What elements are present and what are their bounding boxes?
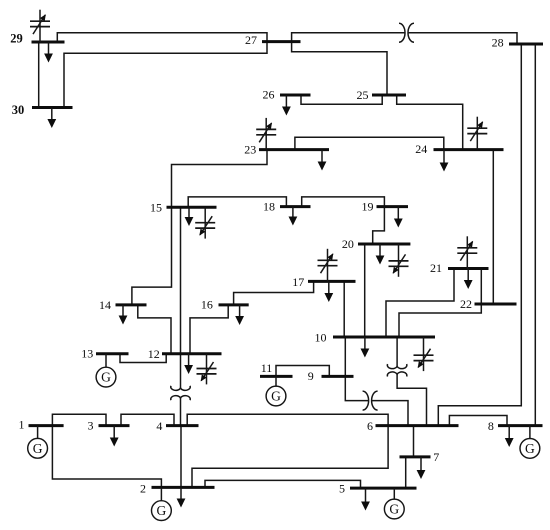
svg-text:10: 10 [315, 331, 327, 345]
wire 14-15 [132, 207, 172, 305]
generator G at bus 11 [266, 376, 286, 406]
wire 4-6 [187, 414, 388, 425]
svg-text:3: 3 [88, 418, 94, 432]
wire 8-28 [534, 44, 536, 426]
bus 27 [262, 40, 301, 43]
svg-text:17: 17 [292, 275, 304, 289]
load at bus 7 [417, 457, 426, 479]
svg-text:G: G [157, 503, 167, 518]
svg-text:G: G [101, 370, 111, 385]
svg-text:8: 8 [488, 419, 494, 433]
bus 8 [498, 424, 543, 427]
bus 18 [280, 205, 311, 208]
svg-text:25: 25 [357, 88, 369, 102]
wire 12-13 [120, 354, 166, 363]
svg-text:26: 26 [263, 88, 275, 102]
svg-text:21: 21 [430, 261, 442, 275]
wire 6-10 above transformer [396, 337, 398, 366]
generator G at bus 8 [520, 426, 540, 459]
load at bus 17 [324, 281, 333, 302]
wire 18-19 [302, 197, 385, 207]
svg-text:4: 4 [156, 419, 162, 433]
load at bus 30 [47, 108, 56, 129]
svg-text:11: 11 [261, 361, 273, 375]
load at bus 18 [289, 207, 298, 226]
svg-text:16: 16 [201, 298, 213, 312]
wire 4-12 above transformer [180, 354, 182, 388]
load at bus 16 [235, 305, 244, 325]
svg-text:12: 12 [148, 347, 160, 361]
shunt capacitor at bus 20 [389, 244, 409, 277]
wire 29-27 [57, 33, 267, 42]
load at bus 5 [361, 488, 370, 510]
svg-text:27: 27 [245, 33, 257, 47]
load at bus 12 [184, 354, 193, 374]
load at bus 2 [177, 487, 186, 507]
wire 6-8 [449, 416, 507, 426]
wire 9-10 [344, 337, 346, 376]
wire 12-15 [180, 207, 182, 354]
shunt capacitor at bus 21 [457, 236, 477, 268]
wire 16-17 [234, 282, 314, 305]
transformer 27-28 [399, 23, 414, 42]
wire 23-24 [295, 137, 444, 149]
bus 14 [116, 303, 147, 306]
load at bus 29 [44, 42, 53, 63]
svg-text:5: 5 [339, 481, 345, 495]
bus 20 [358, 243, 410, 246]
wire 6-9 right of transformer [372, 401, 408, 426]
wire 15-18 [188, 197, 286, 207]
wire 3-4 [121, 414, 174, 425]
wire 6-28 [438, 44, 521, 426]
wire 2-6 [192, 426, 388, 488]
load at bus 19 [394, 207, 403, 228]
svg-text:6: 6 [367, 419, 373, 433]
shunt capacitor at bus 29 [30, 10, 50, 42]
wire 1-2 [52, 426, 161, 488]
bus 23 [259, 148, 329, 151]
wire 2-4 [180, 426, 182, 488]
wire 27-28 right of transformer [408, 33, 517, 44]
wire 10-21 [386, 269, 454, 338]
shunt capacitor at bus 10 [414, 337, 434, 371]
bus 16 [219, 303, 249, 306]
wire 29-30 [38, 42, 40, 108]
shunt capacitor at bus 24 [467, 117, 487, 150]
svg-text:G: G [389, 502, 399, 517]
bus 15 [167, 206, 217, 209]
bus 26 [280, 94, 311, 97]
svg-text:9: 9 [308, 369, 314, 383]
wire 12-16 [190, 305, 228, 354]
svg-text:7: 7 [433, 450, 439, 464]
svg-text:18: 18 [263, 199, 275, 213]
transformer 6-10 [387, 364, 407, 376]
load at bus 20 [376, 244, 385, 265]
shunt capacitor at bus 23 [256, 118, 276, 150]
wire 10-22 [399, 304, 481, 337]
generator G at bus 5 [384, 488, 404, 519]
wire 22-24 [492, 150, 494, 304]
svg-text:G: G [33, 441, 43, 456]
bus 13 [96, 352, 129, 355]
bus 30 [32, 106, 73, 109]
bus 25 [372, 94, 406, 97]
shunt capacitor at bus 15 [195, 207, 215, 238]
bus 10 [333, 336, 435, 339]
wire 10-20 [364, 244, 366, 337]
svg-text:19: 19 [362, 200, 374, 214]
wire 5-7 [405, 457, 407, 488]
wire 25-27 [292, 42, 387, 96]
generator G at bus 13 [96, 354, 116, 387]
bus 21 [448, 267, 489, 270]
svg-text:30: 30 [12, 103, 25, 117]
svg-text:22: 22 [460, 297, 472, 311]
generator G at bus 1 [28, 426, 48, 459]
svg-text:13: 13 [81, 347, 93, 361]
bus 5 [350, 487, 417, 490]
wire 6-9 left of transformer [345, 376, 368, 400]
wire 27-28 left of transformer [292, 33, 405, 42]
svg-text:15: 15 [150, 200, 162, 214]
bus 2 [152, 486, 215, 489]
svg-text:28: 28 [492, 35, 504, 49]
bus 17 [308, 280, 356, 283]
generator G at bus 2 [152, 487, 172, 520]
svg-text:1: 1 [19, 418, 25, 432]
load at bus 10 [361, 337, 370, 358]
bus 24 [434, 148, 504, 151]
wire 21-22 [480, 269, 482, 305]
svg-text:29: 29 [10, 31, 23, 45]
wire 6-10 below transformer [397, 374, 426, 425]
wire 10-17 [343, 282, 345, 338]
load at bus 24 [440, 150, 449, 172]
bus 28 [509, 43, 543, 46]
wire 1-3 [52, 414, 106, 425]
svg-text:24: 24 [415, 142, 427, 156]
load at bus 26 [282, 95, 291, 115]
load at bus 3 [110, 426, 119, 447]
bus 4 [166, 424, 199, 427]
wire 25-26 [301, 95, 382, 104]
load at bus 21 [464, 269, 473, 290]
svg-text:G: G [271, 389, 281, 404]
wire 2-5 [205, 480, 361, 488]
transformer 6-9 [363, 391, 378, 410]
bus 29 [32, 41, 65, 44]
load at bus 14 [119, 305, 128, 325]
transformer 4-12 [171, 386, 191, 400]
load at bus 23 [318, 150, 327, 171]
svg-text:G: G [525, 441, 535, 456]
shunt capacitor at bus 12 [197, 354, 217, 385]
wire 19-20 [373, 207, 385, 244]
load at bus 15 [185, 207, 194, 226]
bus 1 [29, 424, 64, 427]
shunt capacitor at bus 17 [318, 249, 338, 282]
wire 9-11 [276, 366, 329, 377]
wire 15-23 [172, 150, 268, 208]
wire 4-12 below transformer [180, 398, 182, 426]
svg-text:23: 23 [244, 142, 256, 156]
svg-text:20: 20 [342, 237, 354, 251]
wire 30-27 [64, 42, 267, 108]
bus 3 [99, 424, 130, 427]
wire 12-14 [138, 305, 171, 354]
bus 12 [162, 352, 222, 355]
load at bus 8 [505, 426, 514, 447]
svg-text:2: 2 [140, 481, 146, 495]
bus 19 [377, 205, 409, 208]
bus 22 [475, 303, 517, 306]
bus 11 [260, 375, 293, 378]
wire 6-7 [413, 426, 415, 457]
bus 9 [322, 375, 354, 378]
bus 6 [376, 424, 459, 427]
wire 24-25 [397, 95, 463, 149]
bus 7 [400, 455, 431, 458]
svg-text:14: 14 [99, 298, 111, 312]
